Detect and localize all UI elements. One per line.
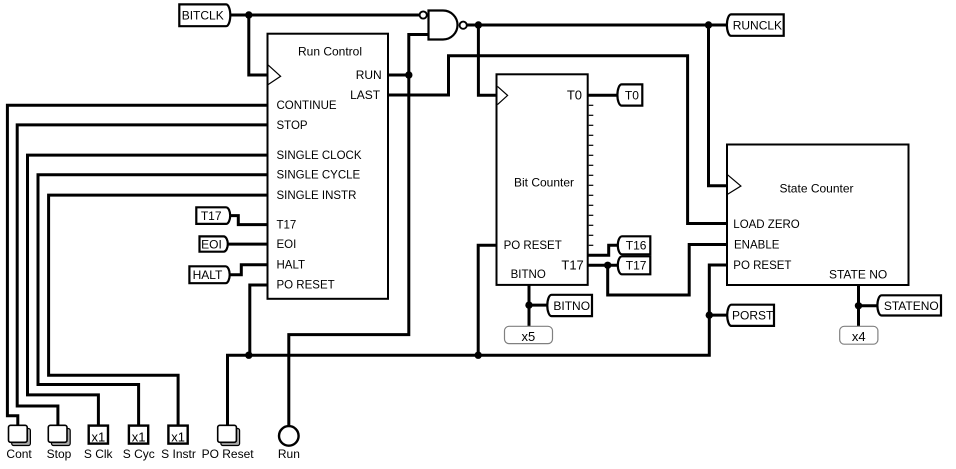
svg-text:PO Reset: PO Reset bbox=[202, 447, 255, 461]
svg-text:T17: T17 bbox=[626, 259, 647, 273]
svg-text:x4: x4 bbox=[852, 329, 866, 344]
svg-text:x1: x1 bbox=[92, 429, 106, 444]
svg-text:SINGLE CLOCK: SINGLE CLOCK bbox=[277, 150, 362, 162]
svg-text:Cont: Cont bbox=[6, 447, 32, 461]
svg-text:BITCLK: BITCLK bbox=[182, 9, 224, 23]
svg-text:BITNO: BITNO bbox=[511, 269, 546, 281]
svg-text:STOP: STOP bbox=[277, 120, 308, 132]
svg-text:Run: Run bbox=[278, 447, 300, 461]
svg-text:x1: x1 bbox=[171, 429, 185, 444]
svg-text:SINGLE CYCLE: SINGLE CYCLE bbox=[277, 170, 361, 182]
svg-text:T0: T0 bbox=[567, 88, 582, 103]
svg-text:T17: T17 bbox=[201, 209, 222, 223]
svg-text:Bit Counter: Bit Counter bbox=[514, 176, 574, 190]
svg-text:SINGLE INSTR: SINGLE INSTR bbox=[277, 190, 357, 202]
svg-text:RUNCLK: RUNCLK bbox=[733, 18, 782, 32]
svg-text:HALT: HALT bbox=[193, 268, 223, 282]
svg-text:EOI: EOI bbox=[277, 239, 297, 251]
svg-text:STATE NO: STATE NO bbox=[829, 268, 887, 282]
svg-text:BITNO: BITNO bbox=[553, 299, 590, 313]
svg-text:Run Control: Run Control bbox=[298, 45, 362, 59]
svg-text:PO RESET: PO RESET bbox=[277, 280, 335, 292]
svg-text:T0: T0 bbox=[625, 88, 639, 102]
svg-text:HALT: HALT bbox=[277, 260, 306, 272]
svg-text:RUN: RUN bbox=[356, 68, 382, 82]
svg-text:x5: x5 bbox=[522, 329, 536, 344]
svg-text:LAST: LAST bbox=[350, 88, 381, 102]
svg-text:CONTINUE: CONTINUE bbox=[277, 100, 337, 112]
svg-text:S Clk: S Clk bbox=[84, 447, 114, 461]
svg-text:STATENO: STATENO bbox=[884, 299, 939, 313]
svg-text:T17: T17 bbox=[561, 258, 583, 273]
svg-text:T17: T17 bbox=[277, 220, 297, 232]
svg-text:S Cyc: S Cyc bbox=[123, 447, 155, 461]
svg-text:PO RESET: PO RESET bbox=[504, 240, 562, 252]
svg-text:LOAD ZERO: LOAD ZERO bbox=[733, 219, 800, 231]
svg-text:PO RESET: PO RESET bbox=[733, 260, 791, 272]
svg-text:EOI: EOI bbox=[201, 237, 222, 251]
svg-text:T16: T16 bbox=[626, 239, 647, 253]
svg-text:Stop: Stop bbox=[47, 447, 72, 461]
svg-text:PORST: PORST bbox=[732, 309, 774, 323]
svg-text:ENABLE: ENABLE bbox=[734, 240, 780, 252]
svg-text:x1: x1 bbox=[132, 429, 146, 444]
svg-text:S Instr: S Instr bbox=[161, 447, 196, 461]
svg-text:State Counter: State Counter bbox=[779, 182, 853, 196]
